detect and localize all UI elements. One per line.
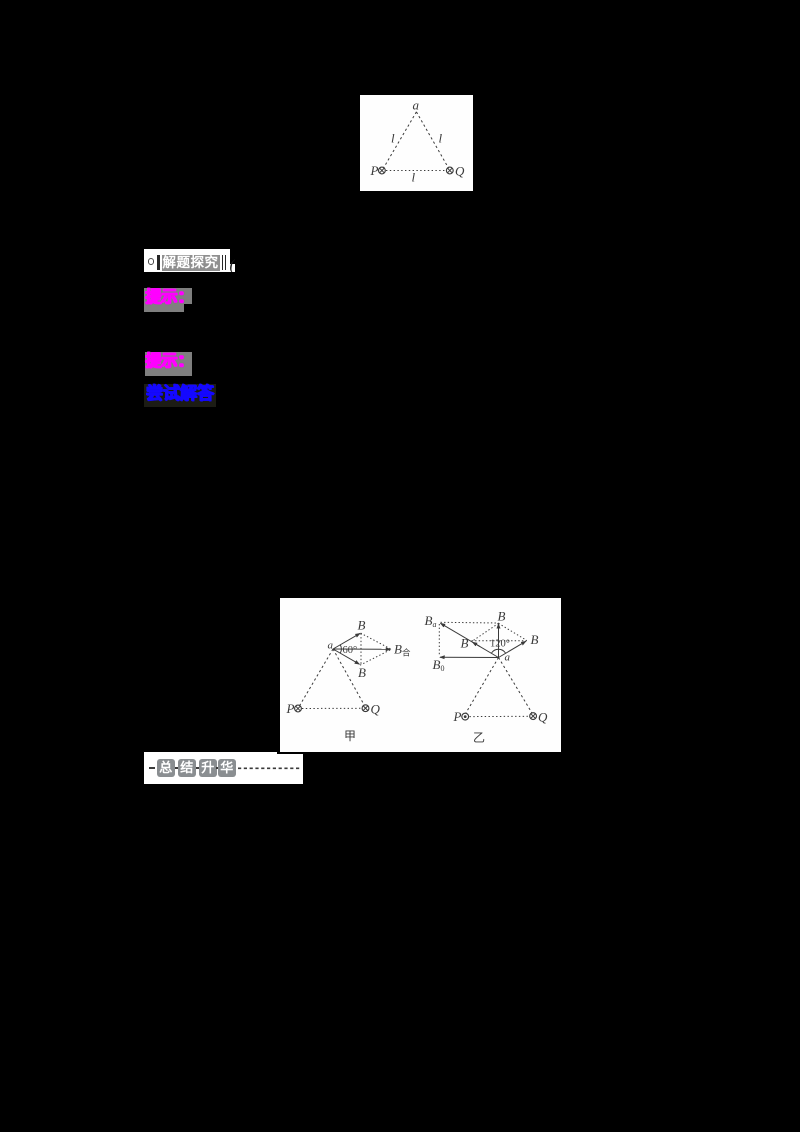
header title box — [162, 255, 220, 271]
svg-text:B: B — [498, 609, 506, 624]
answer label (blue) — [144, 384, 216, 407]
wire Q into page yi — [530, 713, 537, 720]
svg-text:B: B — [358, 618, 366, 633]
svg-text:l: l — [412, 170, 416, 185]
dotted left vertical Ba to B0 — [438, 624, 440, 656]
vector B-he resultant — [333, 648, 391, 650]
svg-text:乙: 乙 — [473, 731, 485, 745]
footer inter-square dashes — [175, 767, 178, 769]
dashed line a to P yi — [466, 658, 499, 713]
svg-text:120°: 120° — [490, 639, 510, 650]
svg-text:甲: 甲 — [344, 729, 356, 743]
dotted line P to Q yi — [470, 715, 530, 717]
wire P into page — [295, 705, 302, 712]
angle arc 120 — [491, 649, 505, 653]
vector B up-right — [499, 641, 526, 657]
vector B up-right — [333, 633, 360, 649]
svg-text:P: P — [370, 163, 379, 178]
wire P into page symbol — [379, 167, 386, 174]
footer char boxes — [157, 759, 175, 777]
hint label 1 (magenta) — [144, 288, 192, 304]
svg-text:l: l — [439, 131, 443, 146]
dotted rhombus side bottom — [360, 649, 391, 665]
footer trailing dashes — [237, 767, 301, 770]
wire Q into page symbol — [446, 167, 453, 174]
svg-text:l: l — [391, 131, 395, 146]
svg-text:B: B — [531, 632, 539, 647]
svg-text:a: a — [328, 640, 334, 652]
dotted line P to Q — [302, 707, 362, 709]
svg-text:60°: 60° — [343, 645, 358, 656]
svg-text:B合: B合 — [394, 642, 411, 658]
header thick bar — [157, 255, 160, 270]
header badge 解题探究 — [144, 249, 230, 272]
dotted horizontal rhombus diagonal — [472, 640, 527, 642]
wire Q into page — [362, 705, 369, 712]
svg-text:B0: B0 — [433, 657, 445, 673]
header paren fragment — [230, 258, 235, 272]
header double bar — [222, 255, 224, 270]
vector B up — [498, 624, 500, 658]
header circle — [148, 258, 155, 265]
wire P out of page — [462, 713, 469, 720]
top figure: equilateral triangle with wires P,Q — [360, 95, 473, 191]
vector B mid arrowhead on diagonal — [473, 642, 481, 646]
side PQ dotted l — [386, 170, 446, 172]
svg-text:Q: Q — [371, 702, 381, 717]
svg-text:Ba: Ba — [425, 613, 437, 629]
angle arc 60 — [340, 645, 341, 653]
dotted rhombus side top — [361, 633, 392, 649]
vector Ba resultant long diagonal — [441, 623, 499, 657]
footer badge 总结升华 — [144, 752, 277, 784]
svg-text:Q: Q — [455, 164, 465, 179]
vector B down-right — [333, 649, 359, 664]
dotted top horizontal Ba to B — [441, 621, 499, 624]
dotted rhombus side left — [472, 623, 499, 641]
wire Qa dashed side l — [416, 112, 448, 168]
svg-text:a: a — [413, 98, 420, 113]
svg-text:P: P — [453, 709, 462, 724]
dashed line a to Q — [333, 649, 365, 706]
footer leading dash — [149, 767, 155, 769]
svg-text:B: B — [461, 636, 469, 651]
dashed line a to Q yi — [499, 658, 533, 714]
svg-text:P: P — [286, 701, 295, 716]
svg-text:Q: Q — [538, 710, 548, 725]
vector B0 left — [440, 656, 499, 658]
hint label 2 (magenta) — [145, 352, 192, 376]
svg-text:a: a — [505, 652, 511, 664]
wire Pa dashed side l — [383, 112, 416, 168]
dotted rhombus side right — [499, 623, 527, 640]
dashed line a to P — [299, 649, 333, 707]
main figure panel: diagrams 甲 and 乙 — [280, 598, 561, 752]
svg-text:B: B — [358, 665, 366, 680]
dotted vertical BB line — [360, 634, 362, 665]
